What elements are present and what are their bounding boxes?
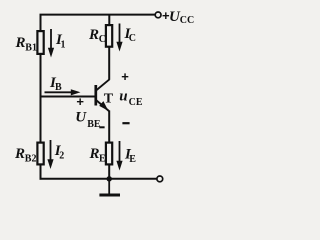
label UBE — [75, 110, 101, 130]
svg-text:1: 1 — [61, 40, 66, 51]
label RC — [88, 27, 106, 45]
terminal +Ucc — [155, 12, 161, 18]
transistor T — [96, 79, 114, 111]
wire left rail RB2 to bottom — [40, 165, 42, 180]
label - of UBE — [99, 126, 104, 128]
svg-text:2: 2 — [59, 151, 64, 162]
arrow I2 — [47, 140, 53, 169]
svg-text:E: E — [129, 154, 136, 165]
label +Ucc — [162, 8, 194, 26]
wire top rail — [40, 14, 156, 16]
svg-text:C: C — [129, 33, 136, 44]
svg-text:B: B — [55, 82, 62, 93]
wire left rail top to RB1 — [40, 15, 42, 31]
svg-text:R: R — [15, 35, 26, 51]
wire top rail to RC — [108, 15, 110, 26]
wire RE to bottom rail — [108, 165, 110, 180]
wire left rail RB1 to RB2 (node B divider) — [40, 55, 42, 143]
svg-text:+: + — [121, 69, 129, 84]
wire RC to collector — [108, 47, 110, 80]
svg-text:B2: B2 — [25, 153, 37, 164]
svg-text:U: U — [75, 110, 87, 126]
svg-text:E: E — [99, 153, 106, 164]
svg-text:u: u — [119, 88, 127, 104]
svg-text:C: C — [99, 34, 106, 45]
arrow I1 — [48, 29, 54, 58]
ground — [99, 179, 120, 197]
label IB — [49, 75, 62, 93]
svg-text:T: T — [104, 91, 114, 106]
svg-text:B1: B1 — [25, 43, 37, 54]
svg-text:BE: BE — [87, 119, 101, 130]
svg-text:CC: CC — [180, 15, 194, 26]
arrow IE — [116, 141, 122, 171]
svg-text:+: + — [76, 94, 84, 109]
svg-text:CE: CE — [129, 97, 143, 108]
resistor RB2 — [37, 143, 43, 165]
svg-text:R: R — [89, 146, 100, 162]
resistor RE — [106, 143, 112, 165]
arrow IB — [45, 89, 81, 95]
arrow IC — [116, 24, 122, 52]
svg-text:R: R — [88, 27, 99, 43]
label IC — [124, 26, 137, 44]
label uCE — [119, 88, 143, 108]
wire bottom rail — [40, 178, 157, 180]
label IE — [124, 147, 136, 166]
resistor RB1 — [37, 31, 43, 54]
resistor RC — [106, 25, 112, 47]
wire emitter to RE — [108, 111, 110, 143]
wire base to node B — [41, 96, 96, 98]
terminal bottom right — [157, 176, 163, 182]
label RB2 — [14, 146, 36, 164]
label RE — [89, 146, 107, 164]
svg-text:R: R — [14, 146, 25, 162]
junction bottom node — [107, 176, 112, 181]
label - of uCE — [122, 122, 129, 124]
label I2 — [54, 143, 65, 162]
label RB1 — [15, 35, 37, 54]
label I1 — [55, 32, 66, 51]
